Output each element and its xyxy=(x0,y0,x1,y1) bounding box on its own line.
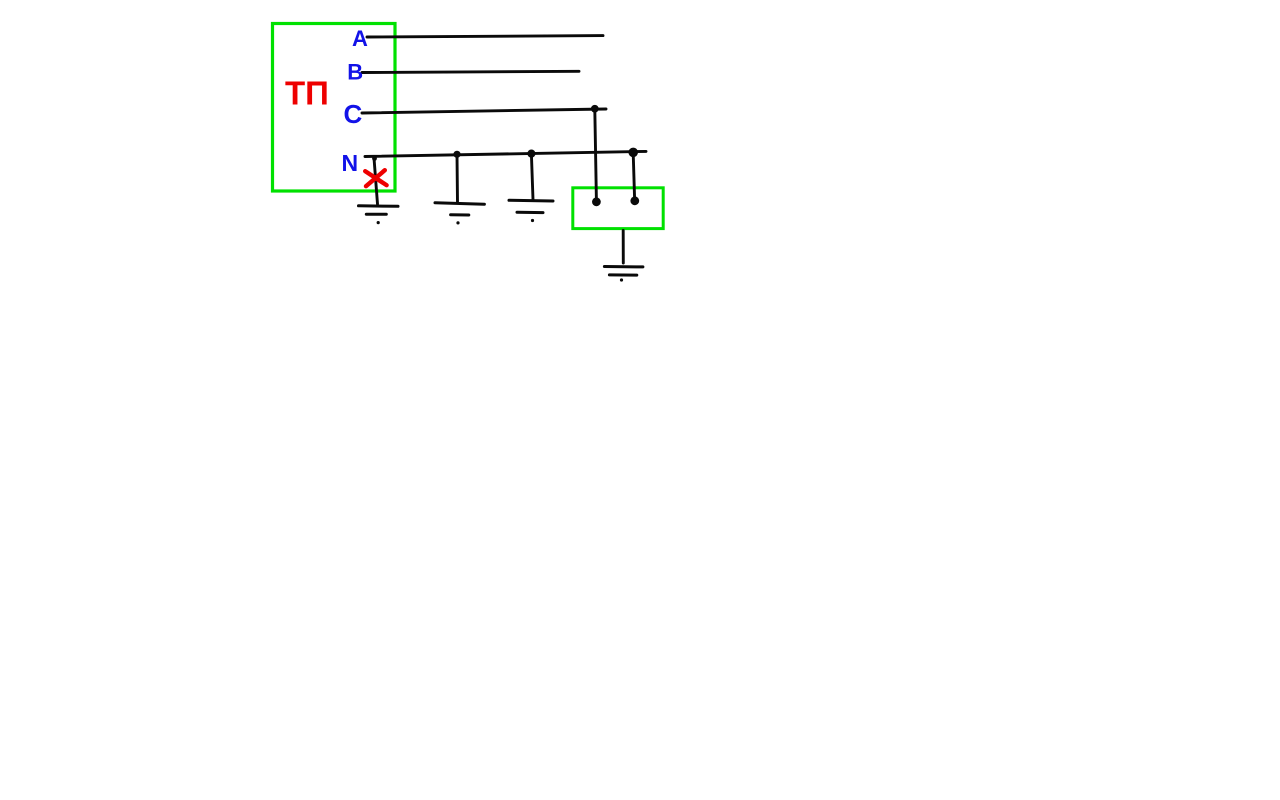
svg-text:ТП: ТП xyxy=(285,74,329,111)
svg-text:C: C xyxy=(344,99,363,129)
svg-text:N: N xyxy=(342,150,359,176)
svg-text:B: B xyxy=(347,60,363,85)
svg-text:A: A xyxy=(352,26,368,51)
